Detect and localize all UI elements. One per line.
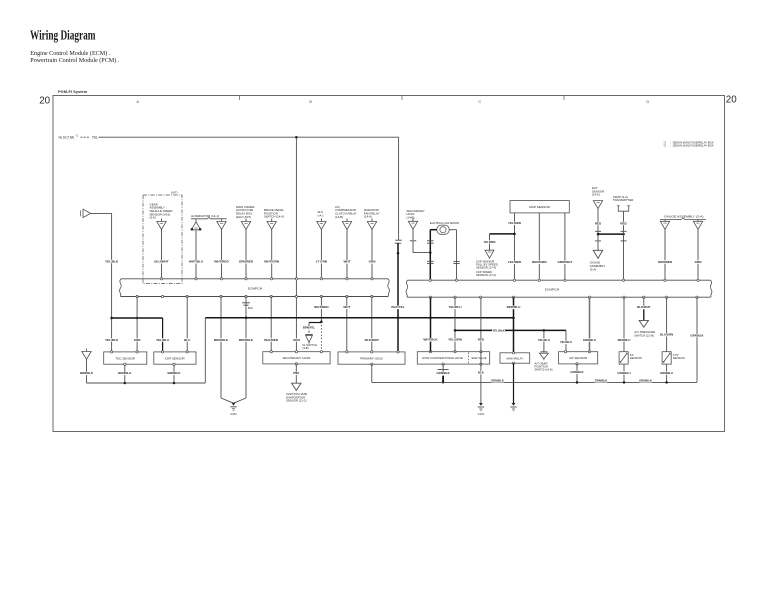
svg-text:BLU: BLU [184,338,190,342]
svg-text:Powertrain Control Module (PCM: Powertrain Control Module (PCM) . [30,57,119,64]
svg-text:SWITCH (21-B): SWITCH (21-B) [634,333,654,337]
svg-text:D: D [646,100,649,104]
svg-text:GRN/BLU: GRN/BLU [660,371,673,375]
svg-text:SENSOR (17-4): SENSOR (17-4) [476,266,496,270]
svg-text:WHT/RED: WHT/RED [214,260,229,264]
svg-text:SWITCH (A-6): SWITCH (A-6) [535,368,553,372]
svg-text:YEL/RED: YEL/RED [483,240,495,244]
svg-text:Wiring Diagram: Wiring Diagram [30,28,96,43]
svg-text:Engine Control Module (ECM) .: Engine Control Module (ECM) . [30,50,110,57]
svg-text:GAUGE ASSEMBLY (2-A): GAUGE ASSEMBLY (2-A) [664,215,704,219]
svg-text:EGR VALVE: EGR VALVE [472,356,487,360]
svg-text:GRN/BLK: GRN/BLK [570,370,584,374]
svg-text:GRN: GRN [134,338,141,342]
svg-text:GRN: GRN [369,260,377,264]
svg-text:YEL/BLK: YEL/BLK [492,328,505,332]
svg-text:WHT/GRN: WHT/GRN [264,260,280,264]
svg-text:WHT/BLU: WHT/BLU [189,260,204,264]
svg-text:SEDAN (KA9) FUSE/RELAY BOX: SEDAN (KA9) FUSE/RELAY BOX [673,144,714,148]
svg-text:MAIN RELAY: MAIN RELAY [506,356,523,360]
svg-text:YEL/BLK: YEL/BLK [105,338,119,342]
svg-text:ECM/PCM: ECM/PCM [545,287,560,291]
svg-text:ELECTRICAL LOAD SENSOR: ELECTRICAL LOAD SENSOR [430,221,460,225]
svg-text:RED/BLU: RED/BLU [618,338,631,342]
svg-text:(14-A): (14-A) [364,215,372,219]
svg-text:WHT: WHT [343,305,350,309]
svg-text:RED: RED [595,221,602,225]
svg-text:BLK/WHT: BLK/WHT [365,338,379,342]
svg-text:BLU/WHT: BLU/WHT [154,260,168,264]
svg-text:SENSOR: SENSOR [673,356,685,360]
svg-text:WHT/BLK: WHT/BLK [423,338,438,342]
svg-text:YEL/BLU: YEL/BLU [560,340,572,344]
svg-text:G101: G101 [478,412,485,416]
svg-text:RED: RED [478,338,485,342]
svg-text:GRN/RED: GRN/RED [239,260,254,264]
svg-text:GRN/RED: GRN/RED [658,260,673,264]
svg-text:(-A-): (-A-) [318,213,324,217]
svg-text:·: · [473,259,474,263]
svg-text:GRN/BLK: GRN/BLK [690,333,704,337]
svg-text:YEL/RED: YEL/RED [508,221,522,225]
svg-text:No.18 (7.5A): No.18 (7.5A) [59,136,75,140]
svg-text:YEL/RED: YEL/RED [508,260,522,264]
svg-text:RED: RED [620,221,627,225]
svg-text:·: · [473,270,474,274]
svg-text:PNK: PNK [293,371,300,375]
svg-text:IAT SENSOR: IAT SENSOR [569,356,588,360]
svg-text:(3-B): (3-B) [302,346,308,350]
svg-text:(14-B): (14-B) [335,215,343,219]
svg-text:BRN/YEL: BRN/YEL [303,325,316,329]
svg-text:GRN/BLU: GRN/BLU [583,338,596,342]
svg-text:MAP SENSOR: MAP SENSOR [529,205,550,209]
svg-text:BLU/GRN: BLU/GRN [660,333,673,337]
svg-text:YEL/BLK: YEL/BLK [105,259,119,263]
svg-text:WHT: WHT [343,260,350,264]
svg-text:BLK/WHT: BLK/WHT [637,305,651,309]
svg-text:ALTERNATOR (14-1): ALTERNATOR (14-1) [191,214,219,218]
svg-text:PRIMARY HO2S: PRIMARY HO2S [360,356,383,360]
svg-text:BRN/BLK: BRN/BLK [118,371,132,375]
svg-text:YEL/BLU: YEL/BLU [156,338,170,342]
svg-text:SENSOR (21-C): SENSOR (21-C) [286,398,307,402]
svg-text:(3-A): (3-A) [590,267,596,271]
svg-text:SECONDARY HO2S: SECONDARY HO2S [282,356,310,360]
svg-text:RED/BLU: RED/BLU [507,305,522,309]
svg-text:20: 20 [39,95,50,106]
svg-text:YEL/BLU: YEL/BLU [448,305,462,309]
svg-text:EVAP CANISTER PURGE VALVE: EVAP CANISTER PURGE VALVE [423,356,464,360]
svg-text:YEL/BLU: YEL/BLU [538,338,550,342]
svg-text:RED/GRN: RED/GRN [532,260,547,264]
svg-text:GRN: GRN [695,260,703,264]
svg-text:(5-6): (5-6) [150,216,156,220]
svg-text:PGM-FI System: PGM-FI System [58,89,88,94]
svg-text:GRN/BLK: GRN/BLK [595,379,608,383]
svg-text:TDC SENSOR: TDC SENSOR [115,356,136,360]
svg-text:BRN/BLK: BRN/BLK [214,338,229,342]
svg-text:BLK/RED: BLK/RED [264,338,279,342]
svg-text:C: C [478,100,481,104]
svg-text:GRN/BLU: GRN/BLU [617,371,630,375]
svg-text:ECM/PCM: ECM/PCM [248,286,263,290]
svg-text:YEL: YEL [92,136,98,140]
svg-text:20: 20 [726,95,737,106]
svg-text:TRANSMITTER: TRANSMITTER [613,198,634,202]
svg-text:GRN: GRN [293,338,300,342]
svg-text:(A/T): (A/T) [171,191,177,195]
svg-text:(14-6): (14-6) [592,193,600,197]
svg-text:SENSOR (17-4): SENSOR (17-4) [476,273,496,277]
svg-text:G401: G401 [230,412,237,416]
svg-text:BLK: BLK [248,306,253,310]
svg-text:YEL/GRN: YEL/GRN [448,338,463,342]
svg-text:SWITCH (14-6): SWITCH (14-6) [264,215,284,219]
svg-text:SENSOR: SENSOR [630,356,642,360]
svg-text:BRN/BLK: BRN/BLK [239,338,254,342]
svg-text:BRN/BLK: BRN/BLK [80,371,94,375]
svg-text:BRN/BLK: BRN/BLK [167,371,181,375]
svg-text:BLK/YEL: BLK/YEL [391,305,404,309]
svg-text:GRN/BLK: GRN/BLK [437,371,451,375]
svg-text:GRN/BLK: GRN/BLK [491,379,504,383]
svg-text:(ELD UNIT): (ELD UNIT) [236,215,251,219]
svg-text:GRN/WHT: GRN/WHT [558,260,573,264]
svg-text:CKP SENSOR: CKP SENSOR [165,356,185,360]
svg-text:LT GRN: LT GRN [316,260,328,264]
svg-text:BLK: BLK [478,371,485,375]
svg-text:WHT/RED: WHT/RED [314,305,329,309]
svg-text:GRN/BLK: GRN/BLK [639,379,652,383]
